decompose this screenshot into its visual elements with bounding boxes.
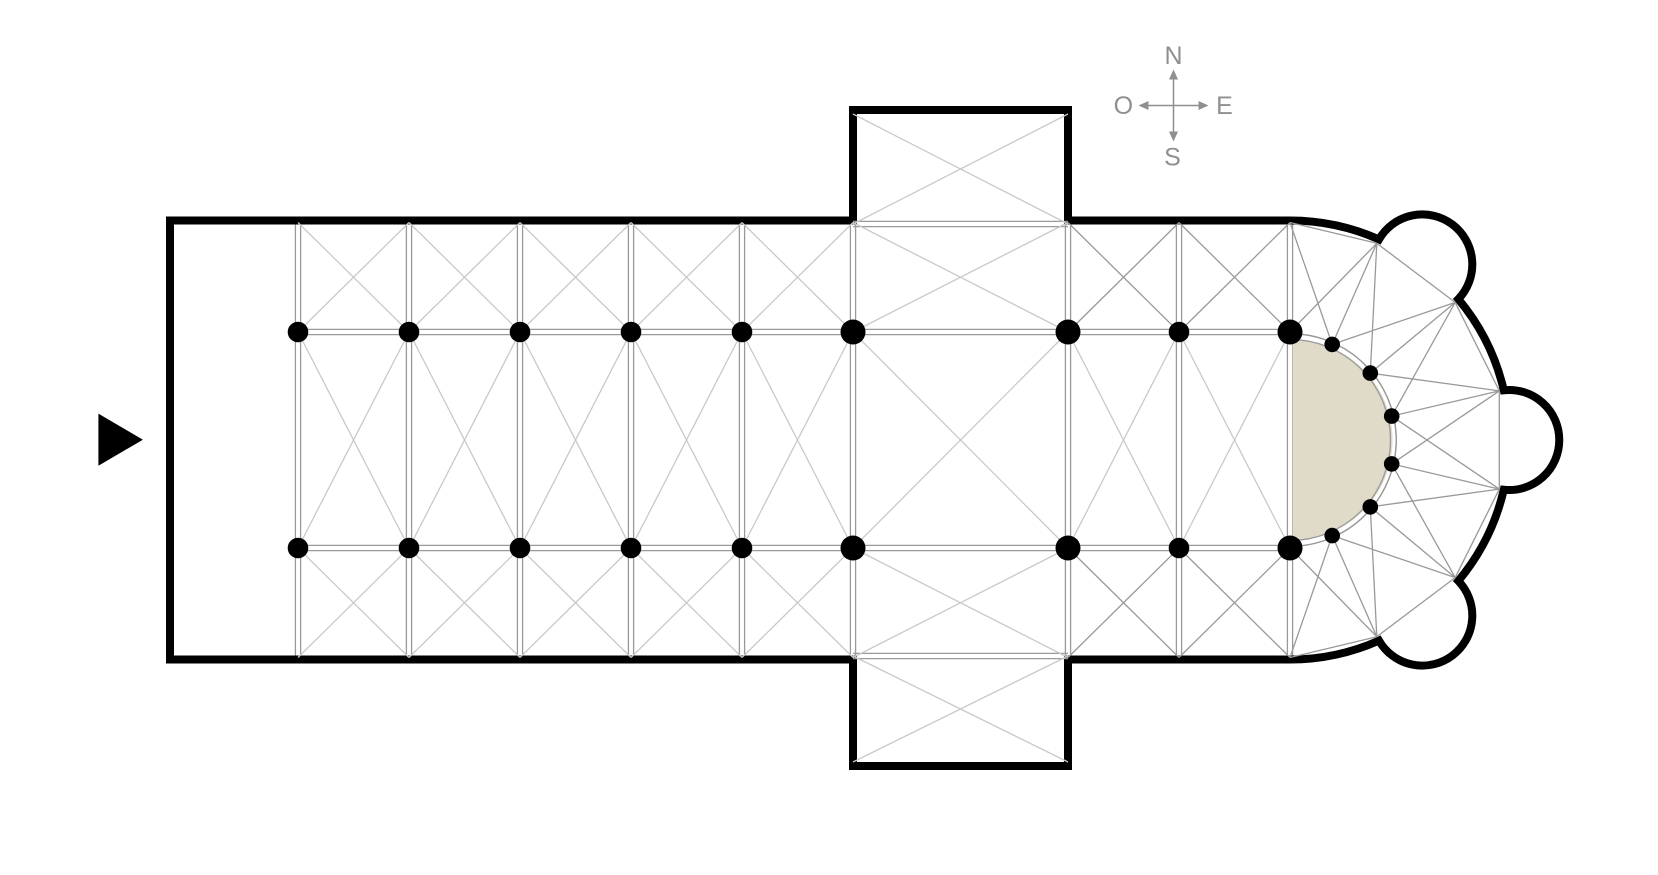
aisle vault crosses across transept (853, 223, 1068, 333)
apse hemicycle double arcs (1290, 340, 1390, 541)
apse hemicycle double arcs over fill (1290, 340, 1390, 541)
nave vault crosses (298, 332, 409, 548)
svg-text:E: E (1216, 92, 1233, 120)
transept arm vault crosses (853, 114, 1068, 224)
choir aisle vault crosses (1068, 223, 1179, 333)
nave and choir columns (288, 322, 309, 343)
svg-text:S: S (1164, 144, 1181, 172)
church outer wall with transepts, apse and three radiating chapels (170, 110, 1559, 766)
entrance arrow (98, 414, 142, 466)
svg-text:O: O (1114, 92, 1133, 120)
svg-text:N: N (1164, 42, 1182, 70)
transverse arch double lines (vertical) (300, 225, 302, 656)
aisle vault crosses west of crossing (298, 223, 409, 333)
compass rose (1139, 70, 1209, 142)
crossing piers and chord piers (841, 320, 866, 345)
ambulatory rib web (1290, 223, 1377, 244)
transept opening double lines (853, 220, 1068, 222)
arcade double lines (horizontal) (298, 328, 1290, 330)
apse choir beige fill (1293, 340, 1393, 540)
apse hemicycle columns (1324, 337, 1340, 353)
